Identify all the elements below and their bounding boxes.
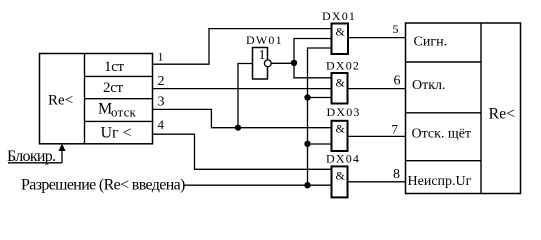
svg-text:&: & — [336, 76, 346, 90]
svg-text:2ст: 2ст — [103, 80, 124, 96]
svg-text:3: 3 — [158, 94, 165, 109]
svg-text:1ст: 1ст — [104, 59, 125, 75]
svg-text:Uг <: Uг < — [101, 125, 132, 142]
svg-text:Re<: Re< — [48, 93, 73, 109]
svg-text:Блокир.: Блокир. — [7, 148, 55, 165]
svg-text:DX03: DX03 — [327, 105, 361, 119]
svg-text:DW01: DW01 — [246, 33, 283, 47]
svg-text:отск: отск — [111, 105, 137, 120]
svg-text:8: 8 — [393, 167, 400, 182]
svg-text:6: 6 — [394, 74, 401, 89]
svg-text:4: 4 — [158, 117, 165, 132]
svg-text:1: 1 — [259, 48, 266, 63]
svg-text:DX04: DX04 — [326, 152, 360, 166]
svg-text:2: 2 — [158, 74, 165, 89]
svg-text:Отск. щёт: Отск. щёт — [412, 127, 472, 142]
svg-text:Re<: Re< — [489, 106, 516, 123]
svg-text:7: 7 — [392, 122, 399, 137]
svg-text:Откл.: Откл. — [412, 78, 446, 93]
svg-text:1: 1 — [158, 50, 164, 64]
svg-text:&: & — [336, 169, 346, 183]
svg-text:Неиспр.Uг: Неиспр.Uг — [408, 174, 472, 189]
svg-text:DX02: DX02 — [326, 58, 360, 72]
svg-text:&: & — [336, 122, 346, 136]
svg-text:Сигн.: Сигн. — [414, 35, 448, 50]
svg-text:DX01: DX01 — [322, 9, 356, 23]
svg-text:Разрешение (Re< введена): Разрешение (Re< введена) — [21, 177, 185, 194]
svg-text:&: & — [336, 25, 346, 39]
svg-text:5: 5 — [393, 22, 399, 36]
